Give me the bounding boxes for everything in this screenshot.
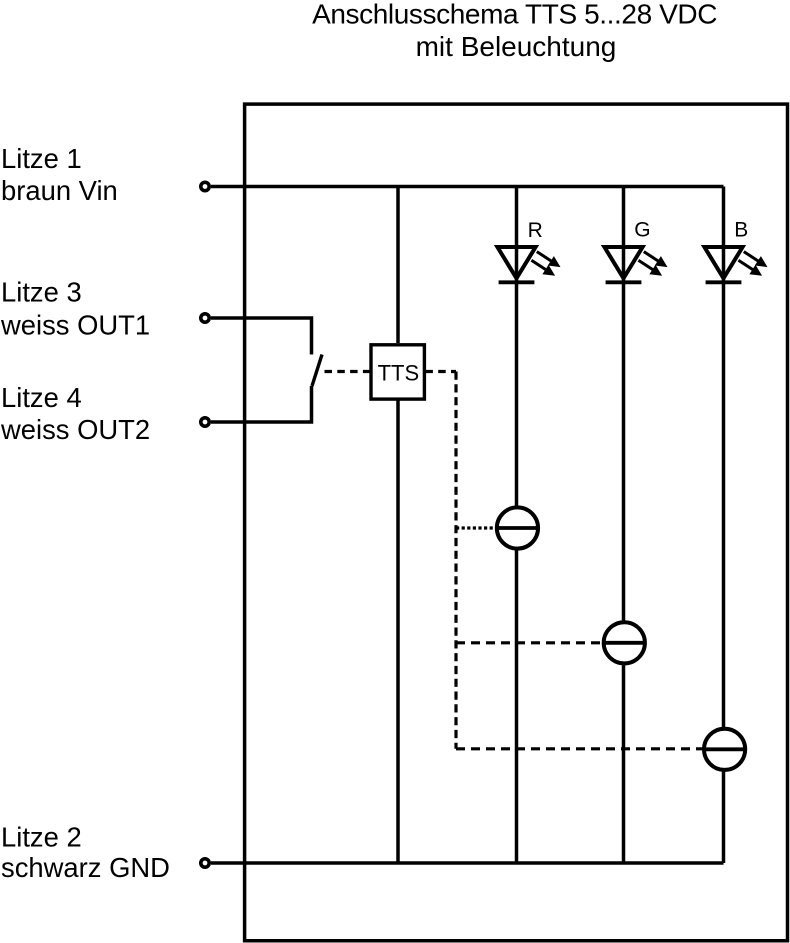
svg-text:schwarz GND: schwarz GND: [1, 852, 170, 883]
svg-text:Litze 1: Litze 1: [1, 143, 82, 174]
svg-text:G: G: [634, 219, 650, 242]
svg-text:braun Vin: braun Vin: [1, 175, 118, 206]
svg-text:R: R: [528, 219, 543, 242]
svg-text:mit Beleuchtung: mit Beleuchtung: [416, 31, 617, 62]
svg-text:Anschlusschema TTS 5...28 VDC: Anschlusschema TTS 5...28 VDC: [312, 0, 717, 29]
svg-text:Litze 4: Litze 4: [1, 382, 82, 413]
svg-text:B: B: [734, 218, 748, 241]
svg-text:TTS: TTS: [378, 361, 420, 386]
svg-text:weiss OUT2: weiss OUT2: [0, 414, 150, 445]
svg-text:Litze 3: Litze 3: [1, 276, 82, 307]
svg-text:weiss OUT1: weiss OUT1: [0, 310, 150, 341]
svg-text:Litze 2: Litze 2: [1, 822, 82, 853]
